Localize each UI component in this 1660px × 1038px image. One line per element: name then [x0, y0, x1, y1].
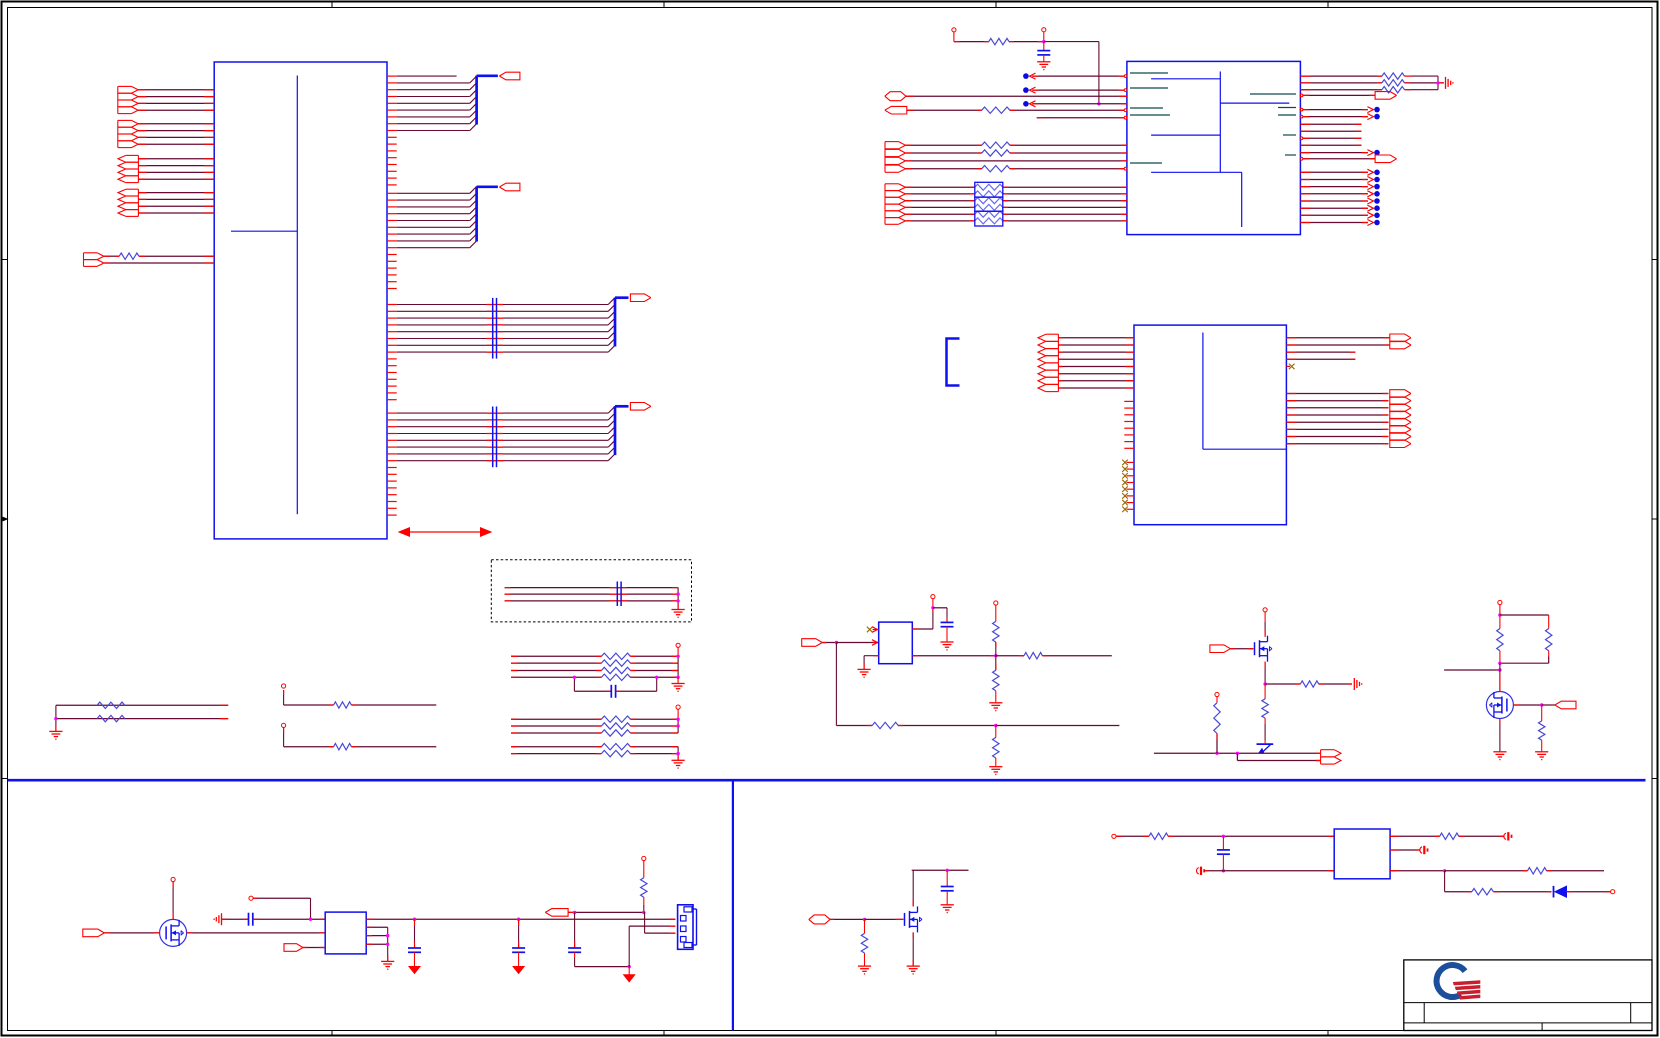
R parallel bottom wire: [1500, 662, 1549, 664]
junction J2: [1097, 102, 1100, 105]
capacitor C-BL1: [249, 913, 253, 926]
U6 lower ground: [989, 767, 1002, 775]
Q2 drain wire: [1264, 622, 1266, 637]
bus A net flag: [499, 72, 520, 80]
U4 out main: [366, 918, 675, 920]
wire P1 to R: [954, 41, 989, 43]
blue bracket symbol: [947, 339, 960, 386]
capacitor C-Q5: [941, 870, 954, 904]
Q1 gate wire: [104, 932, 159, 934]
wires group C: [138, 159, 214, 179]
wire U2-G1 with resistor: [905, 142, 1127, 148]
R parallel top wire: [1500, 614, 1549, 616]
U5 out1: [1390, 833, 1504, 839]
transistor Q1: [160, 919, 187, 946]
U6 supply pin: [931, 595, 935, 608]
sideways ground G-Q2: [1354, 678, 1361, 690]
Q4 source ground: [1493, 752, 1506, 760]
divider chain top pin: [994, 601, 998, 622]
net flag F-Q3b: [1321, 757, 1341, 764]
Q5 gate wire: [830, 918, 864, 920]
pair1 ground: [49, 731, 62, 739]
group B vertical: [676, 718, 679, 734]
R-Q4b: [1546, 615, 1552, 663]
wire U3-R1: [1286, 337, 1389, 339]
title block row line: [1404, 1002, 1652, 1004]
U2 internal pin-name text lines: [1130, 73, 1296, 163]
net flag group C (inputs): [118, 155, 138, 182]
Q4 gate vertical: [1499, 663, 1501, 691]
Q4 supply pin: [1498, 600, 1502, 615]
junction J-Q4d: [1540, 703, 1543, 706]
net flag F-U3b: [1390, 341, 1411, 349]
group A vertical: [676, 655, 679, 679]
U3 internal horizontal: [1203, 448, 1287, 450]
bus D vertical: [614, 406, 617, 455]
wires U3-A: [1058, 338, 1134, 388]
net flag F-U2b: [885, 106, 907, 114]
tap T-U5b: [1420, 846, 1428, 854]
junction J-BL1: [309, 918, 312, 921]
wire U2-R11: [1300, 150, 1379, 156]
bus C horizontal: [615, 296, 629, 299]
Q4 input wire: [1444, 669, 1500, 671]
wires group B: [138, 124, 214, 144]
junction J-Q4c: [1498, 668, 1501, 671]
U2 right wires with resistors: [1300, 73, 1444, 93]
wire U2-R12: [1300, 157, 1375, 160]
Q5 ground: [907, 966, 920, 974]
Q2 bias pin: [1215, 692, 1219, 702]
wire J1 right: [1044, 41, 1099, 43]
U6 out2 wire: [912, 655, 996, 657]
section divider horizontal: [8, 779, 1646, 782]
junction J-BL5: [628, 965, 631, 968]
wire P to down: [253, 898, 310, 919]
junction J-U6d: [994, 724, 997, 727]
divider mid wire: [995, 642, 997, 670]
U6 divider ground: [989, 703, 1002, 711]
gnd arrow A-BL5: [624, 967, 635, 982]
Q1 top wire: [172, 882, 174, 920]
title block outline: [1404, 960, 1652, 1031]
wire cap to junction: [253, 918, 325, 920]
U5 fb branch: [1445, 871, 1552, 895]
junction J-Q4a: [1498, 613, 1501, 616]
wire U2-F: [1037, 116, 1127, 119]
U6 nc input: [867, 627, 879, 633]
U5 out2: [1390, 849, 1420, 851]
net flag F-U2a: [885, 92, 906, 101]
wire down to pin wire: [1098, 42, 1100, 104]
junction J-U5b: [1222, 869, 1225, 872]
U6 cap ground: [940, 642, 953, 650]
resistor R-U2a: [989, 38, 1009, 44]
resistor pack RN1: [975, 182, 1003, 226]
wire U2-E with resistor: [907, 107, 1127, 113]
wire U2-R5: [1300, 107, 1380, 113]
U1 right pin stubs between bundles: [387, 137, 397, 515]
sideways ground G-BL: [214, 913, 221, 925]
R-Q4a: [1497, 615, 1503, 663]
U5 lower input: [1197, 867, 1335, 875]
ground G-box: [672, 610, 685, 618]
net flag group B (outputs): [118, 120, 138, 147]
pair1 wires: [54, 702, 228, 731]
termination resistors group A: [511, 653, 678, 680]
wire U2-G3: [905, 160, 1127, 162]
U2 internal line v1: [1219, 72, 1221, 173]
net flag F-U3a: [1390, 334, 1411, 342]
net flag group E (outputs): [84, 253, 104, 267]
bus C crossing bars: [493, 298, 497, 359]
IC U1 internal vertical line: [296, 76, 298, 515]
pair2 circuit b: [282, 684, 437, 750]
wire flag to resistor net: [568, 911, 644, 913]
capacitor C-U2a: [1037, 42, 1050, 62]
lower resistor R-U6c: [993, 726, 999, 767]
U2 internal line v2: [1241, 172, 1243, 227]
wire U2-G2 with resistor: [905, 150, 1127, 156]
U2 internal line h4: [1151, 171, 1242, 173]
wire U2-C: [1023, 101, 1127, 107]
wire U2-A: [1023, 73, 1127, 79]
net flag F-Q1: [83, 929, 105, 937]
title block row3 divider: [1541, 1023, 1543, 1031]
U2 internal line h1: [1151, 78, 1220, 80]
Q2 gate wire: [1230, 648, 1253, 650]
divider gnd wire: [995, 691, 997, 703]
capacitor C-BL2: [408, 919, 421, 966]
Q4 source wire: [1499, 719, 1501, 752]
wire flag to junction: [822, 642, 836, 644]
dashed option box: [491, 560, 691, 622]
junction J-U5c: [1443, 869, 1446, 872]
wire to U6 gate: [836, 640, 878, 646]
divider resistor R-U6a: [993, 621, 999, 642]
feedback vertical: [835, 643, 837, 726]
pair2 circuit a: [284, 690, 437, 708]
diode wire: [1567, 891, 1611, 893]
net flag F-U4: [284, 944, 303, 952]
U2 right lower bundle: [1300, 169, 1379, 225]
supply pin P1: [952, 28, 956, 42]
bus bundle A wires: [387, 76, 477, 130]
junction J-Q4b: [1498, 662, 1501, 665]
bus B vertical: [475, 187, 478, 242]
Q2 source wire: [1264, 662, 1266, 684]
wire U3-R4: [1286, 358, 1355, 360]
capacitor C-BL4: [568, 912, 629, 966]
net flag group U2-H: [885, 184, 905, 225]
wire U2-R6: [1300, 114, 1380, 120]
Q2 base branch: [1265, 681, 1352, 687]
wires U2-H through resistor pack: [905, 184, 1127, 224]
Q5 gate wire2: [865, 918, 904, 920]
wire U2-R9: [1300, 137, 1361, 140]
connector J1-BL: [678, 905, 697, 950]
bus bundle D wires: [387, 406, 615, 460]
net flag F-U6: [802, 639, 823, 647]
U3 internal vertical: [1202, 333, 1204, 450]
IC U4 outline: [325, 912, 366, 954]
C-BL2 gnd arrow: [409, 967, 420, 974]
title block row2 dividers: [1404, 1003, 1652, 1023]
IC U1 internal horizontal line: [231, 230, 297, 232]
wire E2: [104, 262, 214, 264]
Q2 pulldown resistor: [1262, 684, 1268, 724]
feedback wire right: [996, 725, 1120, 727]
spare wire marker (red double arrow): [399, 528, 491, 536]
junction J-Q5: [863, 918, 866, 921]
wire U2-R7: [1300, 123, 1361, 125]
net flag group A (outputs): [118, 86, 138, 113]
Q5 gate resistor: [861, 919, 867, 965]
Q1 supply pin: [171, 877, 175, 881]
C-Q5 ground: [941, 905, 954, 913]
net flag F-U2d: [1375, 155, 1397, 163]
bus C net flag: [630, 294, 651, 302]
dashed box right vertical: [676, 588, 679, 609]
wire gnd to cap: [222, 918, 249, 920]
U3 no-connect pins: [1122, 460, 1134, 512]
wire U2-G4 with resistor: [905, 166, 1127, 172]
capacitor C-BL3: [512, 919, 525, 966]
bus A vertical: [475, 76, 478, 125]
transistor Q5: [905, 906, 923, 932]
U2 internal line h2: [1220, 102, 1289, 104]
wires group D: [138, 193, 214, 213]
divider resistor R-U6b: [993, 670, 999, 691]
C-BL3 gnd arrow: [513, 967, 524, 974]
U2 internal line h3: [1151, 134, 1220, 136]
Q2 lower wire: [1264, 724, 1266, 740]
U5 out3: [1390, 870, 1445, 872]
wire up to connector: [629, 926, 675, 967]
dashed box crossing bars: [617, 582, 621, 607]
U5 input pin: [1112, 834, 1116, 838]
junction J-U6a: [835, 641, 838, 644]
group A ground: [672, 677, 685, 691]
ground G-U2a: [1037, 62, 1050, 70]
wire out2 to R: [996, 653, 1112, 659]
junction J-BL6: [642, 911, 645, 914]
junction J-Q2: [1263, 682, 1266, 685]
Q5 top rail: [912, 869, 969, 871]
capacitor C-U6: [941, 622, 954, 642]
wire U2-R8: [1300, 130, 1361, 132]
Q2 bias resistor: [1214, 703, 1220, 754]
Q2 supply pin: [1263, 608, 1267, 622]
wire U2-R4 to flag: [1300, 94, 1375, 97]
Q4 drain-out wire: [1514, 704, 1542, 706]
junction J-BL3: [517, 918, 520, 921]
group A supply pin: [676, 643, 680, 656]
wire E1 with resistor: [104, 253, 214, 259]
pullup resistor R-BL: [641, 856, 647, 912]
IC U2 outline: [1127, 61, 1301, 234]
Q3 emitter rail: [1154, 752, 1321, 755]
junction J-U6b: [931, 606, 934, 609]
group C ground: [672, 760, 685, 768]
junction J-Q5b: [946, 869, 949, 872]
U3 lower bundle with flags: [1286, 390, 1411, 448]
U3 left pin stubs: [1124, 401, 1134, 448]
group A cap loop: [573, 676, 659, 698]
transistor Q4: [1486, 692, 1513, 719]
termination resistors group B: [511, 716, 678, 736]
bus D net flag: [630, 403, 651, 411]
net flag F-U2c: [1375, 92, 1397, 100]
junction J3: [1436, 81, 1439, 84]
bus A horizontal: [477, 74, 498, 77]
wire to cap: [933, 608, 947, 623]
termination resistors group C: [511, 744, 678, 757]
supply pin P-BL: [249, 896, 253, 900]
U6 out1 wire: [912, 608, 933, 629]
wire R to junction: [1009, 41, 1044, 43]
capacitor C-U5: [1217, 836, 1230, 871]
net flag F-BL (input): [545, 909, 568, 917]
IC U1 outline: [214, 62, 387, 539]
wire U3-R2: [1286, 344, 1389, 346]
wire U2-B: [1023, 87, 1127, 93]
U5 input wire: [1116, 833, 1334, 839]
transistor Q2: [1255, 636, 1273, 662]
Q4 pulldown ground: [1535, 752, 1548, 760]
company logo: [1437, 965, 1481, 1000]
junction J-U5a: [1222, 835, 1225, 838]
junction J-BL2: [413, 918, 416, 921]
U6 ground: [858, 669, 871, 677]
U3 right no-connect: [1286, 364, 1294, 370]
bus bundle B wires: [387, 187, 477, 248]
junction J-U6c: [994, 654, 997, 657]
diode D1: [1554, 886, 1567, 898]
group C vertical: [676, 747, 679, 760]
IC U3 outline: [1134, 325, 1286, 525]
wires group A: [138, 90, 214, 110]
U5 out3 resistor: [1445, 868, 1604, 874]
Q5 drain wire: [912, 870, 914, 906]
bus D crossing bars: [493, 407, 497, 468]
wire flag to U4: [303, 947, 325, 949]
wire U3-R3: [1286, 351, 1355, 353]
output pin P-U5: [1611, 890, 1615, 894]
Q5 source wire: [912, 932, 914, 965]
Q3 second wire: [1237, 753, 1320, 760]
junction J-BL4: [573, 911, 576, 914]
U4 gnd pins: [366, 927, 389, 961]
section divider vertical left: [732, 780, 734, 1030]
IC U6 outline: [879, 622, 913, 664]
junction J1: [1042, 40, 1045, 43]
U4 ground: [381, 961, 394, 969]
dashed box wires: [505, 588, 678, 601]
tap T-U5a: [1504, 832, 1512, 840]
wire U2-R10: [1300, 144, 1361, 146]
net flag F-Q3a: [1321, 750, 1341, 757]
U6 gnd pin: [864, 656, 879, 669]
net flag F-Q5: [809, 915, 830, 924]
net flag F-Q4: [1555, 701, 1576, 709]
bus bundle C wires: [387, 298, 615, 352]
net flag group D (inputs): [118, 189, 138, 216]
bus B horizontal: [477, 185, 498, 188]
net flag group U2-G: [885, 142, 905, 173]
Q4 pulldown: [1539, 705, 1545, 751]
Q5 gate gnd: [858, 966, 871, 974]
bus B net flag: [499, 183, 520, 191]
Q1 out wire: [187, 932, 326, 934]
sideways ground G-U2b: [1446, 77, 1453, 89]
wire J to flag: [1542, 704, 1555, 706]
IC U5 outline: [1334, 829, 1390, 879]
bus D horizontal: [615, 405, 629, 408]
bus C vertical: [614, 298, 617, 347]
supply pin P2: [1042, 28, 1046, 42]
transistor Q3 symbol: [1257, 740, 1274, 753]
net flag F-Q2: [1210, 645, 1231, 653]
feedback wire with resistor: [836, 722, 995, 728]
net flag group U3-A (inputs): [1038, 334, 1058, 391]
group B supply pin: [676, 705, 680, 719]
wire to connector pin3: [644, 912, 676, 933]
wire U2-D: [906, 95, 1127, 97]
